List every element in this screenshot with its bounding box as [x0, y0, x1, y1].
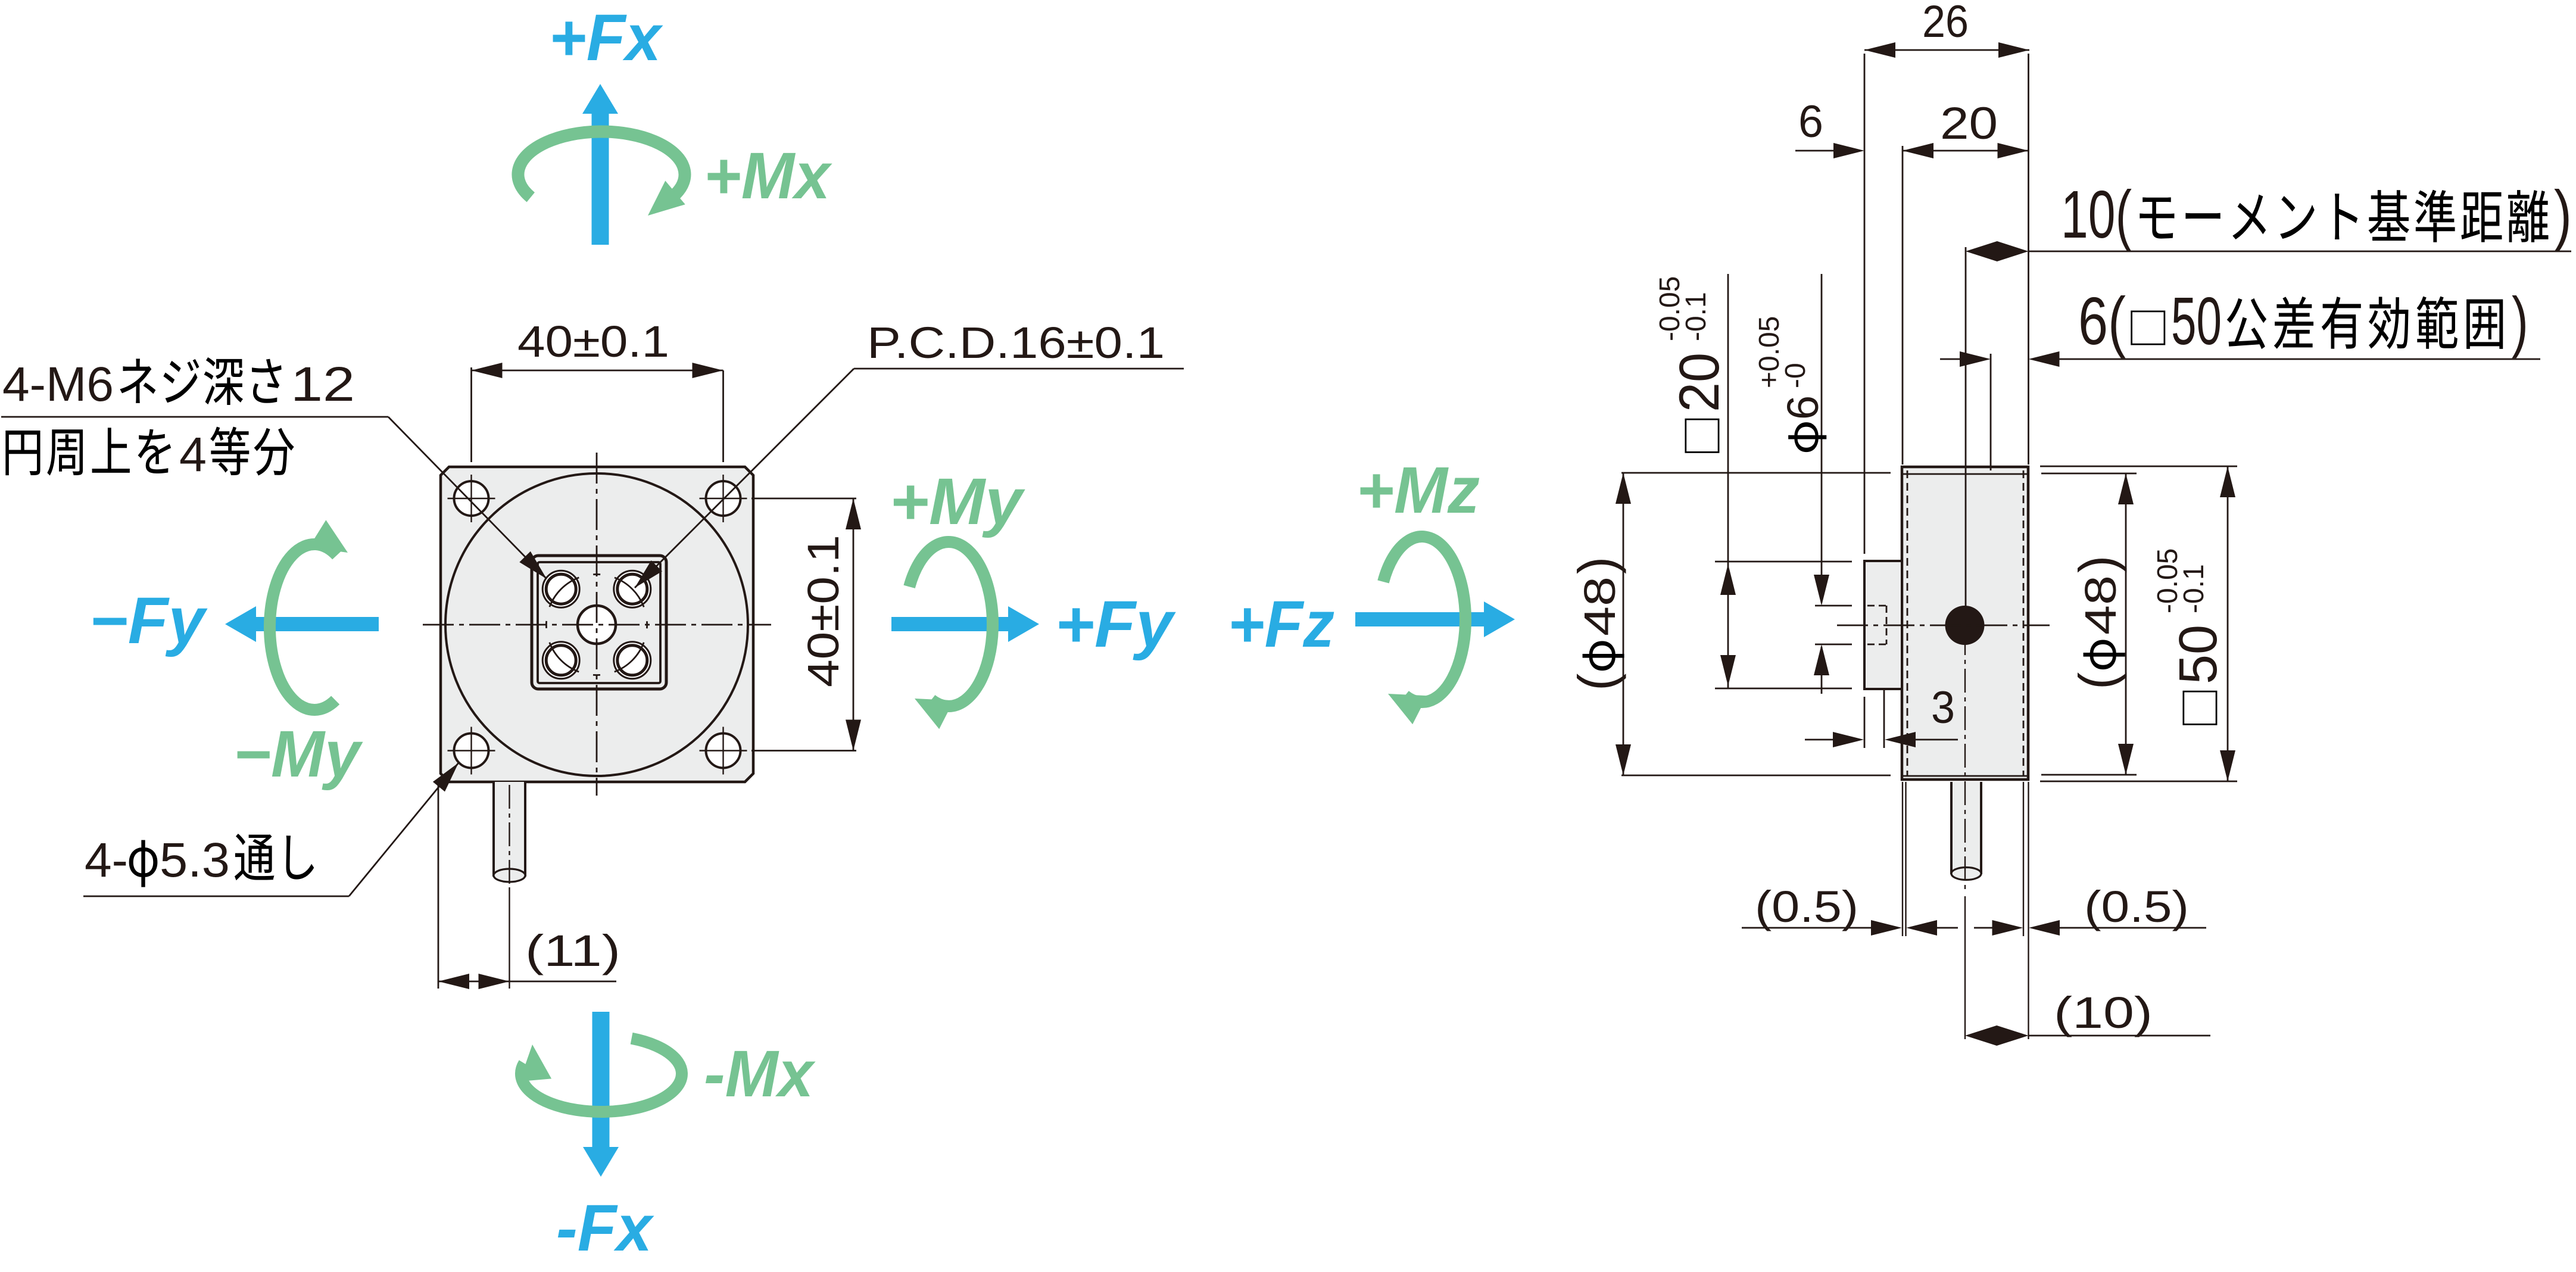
+My rotation arrow (green ellipse) — [909, 542, 993, 706]
dim (0.5) right: arrows and tails — [1974, 927, 1992, 929]
dim 10: long line to the right under label — [2029, 251, 2572, 252]
svg-text:20: 20 — [1940, 98, 1998, 149]
dim (11): dimension line with arrows — [438, 981, 616, 983]
dim (10): diamond and tail — [1965, 1025, 2029, 1046]
svg-text:+Fy: +Fy — [1055, 588, 1176, 661]
side view boss (6mm) on left — [1864, 561, 1902, 689]
svg-text:4-: 4- — [85, 833, 128, 887]
svg-text:20: 20 — [1668, 353, 1731, 412]
svg-text:6: 6 — [1778, 395, 1827, 420]
svg-text:): ) — [2068, 556, 2127, 573]
dim phi48 right: dimension line with arrows — [2125, 473, 2127, 775]
label square20 with tolerances (rotated) — [1654, 276, 1731, 453]
front view center hole phi6 — [578, 606, 616, 644]
dim phi48 left: rotated label — [1567, 557, 1626, 691]
svg-text:26: 26 — [1922, 0, 1969, 47]
dim phi48 left: dimension line with arrows — [1623, 473, 1624, 775]
+Mz rotation arrow (green ellipse) — [1383, 537, 1465, 702]
svg-text:6: 6 — [1798, 96, 1823, 147]
front view body circle phi48 — [445, 473, 748, 776]
front view cable centerline — [509, 785, 510, 887]
front view inner square inner line — [538, 562, 660, 683]
side view cylinder phi48 silhouette bottom edge — [1903, 775, 2027, 777]
front view cable (goes down from flange) — [494, 782, 525, 877]
-Fx force arrow (cyan, down) — [583, 1012, 619, 1177]
side view hidden phi6 hole dashed — [1867, 605, 1886, 607]
dim 40±0.1 right: rotated text — [799, 535, 848, 687]
dim phi6: extension lines — [1815, 605, 1852, 607]
dim 6 tolerance effective range: short extension line — [1990, 354, 1992, 470]
leader 4-phi5.3 with arrowhead to corner hole — [83, 896, 349, 897]
dim phi48 left: extension lines — [1621, 472, 1891, 474]
svg-text:+Mz: +Mz — [1356, 454, 1480, 527]
front view horizontal centerline — [423, 624, 771, 626]
svg-text:48: 48 — [2076, 575, 2125, 635]
dim 26: dimension line with arrows — [1864, 49, 2029, 51]
-My rotation arrow (green ellipse) — [270, 544, 337, 710]
svg-text:-Mx: -Mx — [704, 1037, 816, 1111]
svg-text:−Fy: −Fy — [89, 584, 208, 657]
front view corner holes 4-phi5.3 with crosshairs — [454, 481, 489, 516]
svg-text:(: ( — [1567, 674, 1626, 691]
svg-text:): ) — [1567, 557, 1626, 574]
dim square20: extension lines — [1715, 561, 1852, 563]
dim (0.5) right: extension lines below body — [2023, 782, 2024, 936]
dim (11): extension lines — [438, 785, 439, 989]
svg-text:): ) — [2512, 283, 2528, 358]
svg-text:50: 50 — [2169, 625, 2228, 684]
dim phi48 right: extension lines — [2041, 473, 2137, 475]
side view hidden dashed line right inset 0.5 — [2023, 470, 2025, 776]
dim phi6: dimension line with outside arrows — [1821, 274, 1823, 603]
side view cylinder phi48 silhouette top edge — [1903, 473, 2027, 475]
svg-text:P.C.D.16±0.1: P.C.D.16±0.1 — [867, 318, 1165, 367]
svg-text:50: 50 — [2171, 283, 2222, 358]
dim 3: arrows — [1805, 739, 1833, 741]
svg-text:+Fz: +Fz — [1228, 588, 1334, 661]
dim square50: dimension line with arrows — [2227, 466, 2229, 781]
side view cable entry black dot — [1945, 606, 1985, 645]
dim (0.5) left: extension lines below body — [1902, 782, 1903, 936]
leader 4-M6 note with arrowhead to tapped hole — [1, 416, 388, 418]
svg-text:48: 48 — [1575, 576, 1624, 636]
label square50 with tolerances (rotated) — [2152, 548, 2228, 725]
dim 40±0.1 top: extension lines — [470, 367, 472, 462]
svg-text:−My: −My — [233, 718, 363, 791]
dim 26: extension lines — [1864, 54, 1866, 554]
svg-text:5.3: 5.3 — [160, 833, 230, 887]
svg-text:40±0.1: 40±0.1 — [799, 535, 848, 687]
svg-text:4-M6: 4-M6 — [2, 357, 114, 411]
dim 40±0.1 right: dimension line with arrows — [853, 498, 854, 751]
side view vertical centerline through cable — [1964, 631, 1966, 891]
dim square50 right: extension lines — [2040, 466, 2237, 467]
side view hidden dashed line left inset 0.5 — [1907, 470, 1908, 776]
svg-text:-0: -0 — [1780, 363, 1811, 388]
dim phi48 right: rotated label — [2068, 556, 2127, 690]
front view P.C.D.16 dash-dot circle — [532, 560, 662, 690]
svg-text:10(: 10( — [2061, 177, 2132, 252]
svg-text:(10): (10) — [2054, 988, 2153, 1037]
dim 40±0.1 right: extension lines — [751, 498, 856, 500]
svg-text:40±0.1: 40±0.1 — [517, 317, 669, 366]
svg-text:12: 12 — [291, 357, 355, 411]
-Fy force arrow (cyan, left) — [225, 606, 379, 642]
svg-text:+Fx: +Fx — [549, 1, 663, 74]
front view flange plate (square 50x50) — [441, 467, 753, 782]
svg-text:3: 3 — [1931, 682, 1955, 733]
dim (0.5) left: arrows and tails — [1742, 927, 1871, 929]
svg-text:(: ( — [2068, 672, 2127, 690]
+Mx rotation arrow (green ellipse) — [518, 132, 685, 197]
front view inner mounting boss square (rounded) — [532, 556, 666, 689]
dim 3: extension lines — [1864, 697, 1866, 748]
side view main body rectangle — [1902, 467, 2028, 780]
svg-text:+Mx: +Mx — [704, 139, 832, 213]
+Fx force arrow (cyan, up) — [582, 84, 618, 245]
svg-text:): ) — [2554, 177, 2572, 252]
+Fz force arrow (cyan, right) — [1355, 601, 1515, 637]
front view vertical centerline — [596, 453, 598, 796]
dim 6: outside arrow and tail — [1795, 150, 1835, 152]
svg-text:-0.1: -0.1 — [2178, 564, 2210, 613]
svg-text:4: 4 — [179, 428, 207, 482]
dim 10 moment reference: extension line down to dot — [1965, 247, 1967, 607]
svg-text:+My: +My — [890, 465, 1025, 538]
dim (10): extension lines — [2028, 936, 2029, 1039]
dim square20: dimension line with inside arrows — [1727, 274, 1729, 688]
dim 10: diamond between extension lines — [1966, 241, 2029, 261]
svg-text:(0.5): (0.5) — [1755, 882, 1858, 931]
dim 40±0.1 top: dimension line with arrows — [472, 370, 723, 372]
leader P.C.D.16±0.1 with arrowhead into hole — [854, 368, 1184, 370]
svg-text:(11): (11) — [525, 926, 620, 975]
note text: equally spaced 4 on circumference — [5, 431, 40, 475]
+Fy force arrow (cyan, right) — [891, 606, 1039, 642]
dim 20: dimension line with arrows — [1903, 150, 2029, 152]
dim 20: extension line — [1902, 146, 1904, 464]
-Mx rotation arrow (green ellipse) — [521, 1039, 682, 1112]
side view cable going down — [1951, 782, 1981, 876]
svg-text:-Fx: -Fx — [556, 1192, 654, 1265]
dim 6(eff): arrows and lines — [1940, 358, 1960, 360]
side view horizontal centerline — [1837, 625, 2050, 626]
svg-text:(0.5): (0.5) — [2084, 882, 2189, 931]
svg-text:-0.1: -0.1 — [1680, 292, 1712, 341]
svg-text:6(: 6( — [2078, 283, 2126, 358]
label phi6 with tolerances (rotated) — [1754, 316, 1827, 453]
front view 4 tapped holes M6 — [542, 570, 579, 607]
